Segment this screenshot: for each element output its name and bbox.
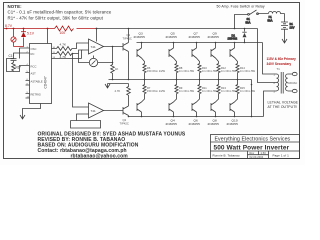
svg-text:741: 741 <box>91 45 97 49</box>
transistor Q2 TIP42C <box>120 98 130 126</box>
wire: IC supply from red rail <box>47 28 49 44</box>
diode D1 1N5402 <box>228 28 247 44</box>
transistor QL141 lower 2N3055 <box>137 96 145 118</box>
svg-text:5.1V: 5.1V <box>27 32 35 36</box>
red supply rail wire <box>4 28 98 30</box>
transistor Q9 upper 2N3055 <box>208 32 220 64</box>
upper collector rail <box>137 42 263 44</box>
wire: IC pin to op-amp U2B input <box>72 53 83 107</box>
credits text block <box>38 132 186 160</box>
svg-text:ASTABLE: ASTABLE <box>31 80 43 84</box>
svg-text:150 Ohm 1/2W: 150 Ohm 1/2W <box>147 69 166 73</box>
feedback loop with trimmer VR1 <box>79 50 113 67</box>
resistor R1* <box>12 63 22 72</box>
svg-text:340V Secondary: 340V Secondary <box>267 62 292 66</box>
resistor R16 (red, 100 ohm) <box>55 26 74 31</box>
svg-text:150 Ohm 1/2W: 150 Ohm 1/2W <box>147 89 166 93</box>
transformer T1 <box>273 67 293 94</box>
resistor R6 150 Ohm 1/2W <box>143 64 166 81</box>
svg-text:50 Amp. Fuse Switch or Relay: 50 Amp. Fuse Switch or Relay <box>217 4 265 8</box>
svg-text:C1* - 0.1 uF metallized-film c: C1* - 0.1 uF metallized-film capacitor, … <box>8 10 112 15</box>
svg-text:1K: 1K <box>115 67 119 71</box>
svg-text:02-03-2004: 02-03-2004 <box>250 155 264 159</box>
transistor Q6 lower 2N3055 <box>189 96 201 127</box>
fuse F1 50A <box>268 12 285 23</box>
svg-text:100: 100 <box>60 31 66 35</box>
resistor R12 0.1 Ohm 5W <box>217 64 237 81</box>
battery B1 12V <box>281 14 295 40</box>
svg-text:2N3055: 2N3055 <box>208 35 220 39</box>
svg-text:LETHAL VOLTAGE: LETHAL VOLTAGE <box>268 101 299 105</box>
svg-text:R1*: R1* <box>16 66 22 70</box>
output terminal bottom <box>292 89 297 92</box>
svg-text:NOTE:: NOTE: <box>8 4 23 9</box>
svg-text:T1: T1 <box>277 67 281 71</box>
svg-text:0.1 Ohm 5W: 0.1 Ohm 5W <box>202 89 218 93</box>
main positive rail (battery side) <box>98 28 258 30</box>
svg-text:0.1 Ohm 5W: 0.1 Ohm 5W <box>221 89 237 93</box>
svg-text:0.1 Ohm 5W: 0.1 Ohm 5W <box>240 89 256 93</box>
wire: op-amp U2A output to Q1 <box>104 46 124 48</box>
svg-text:0.1 Ohm 5W: 0.1 Ohm 5W <box>221 69 237 73</box>
capacitor C1* <box>9 54 17 63</box>
svg-text:2N3055: 2N3055 <box>208 122 220 126</box>
transistor Q5 upper 2N3055 <box>166 32 178 64</box>
chassis ground (battery negative) <box>282 39 287 43</box>
wire: op-amp supply from rail <box>96 28 98 30</box>
IC U1 CD4047 astable oscillator <box>23 44 61 113</box>
svg-text:RETRIG: RETRIG <box>31 93 41 97</box>
svg-text:741: 741 <box>91 109 97 113</box>
svg-text:0.1 Ohm 5W: 0.1 Ohm 5W <box>179 69 195 73</box>
wire: U2B output to Q2 <box>104 110 124 112</box>
resistor R11 0.1 Ohm 5W <box>198 80 218 96</box>
svg-text:rbtabanao@yahoo.com: rbtabanao@yahoo.com <box>71 154 129 160</box>
op-amp U2A <box>83 29 104 55</box>
svg-text:8.7V: 8.7V <box>5 24 13 28</box>
svg-text:50A: 50A <box>268 18 273 22</box>
switch S1 <box>234 10 269 29</box>
svg-text:RCC: RCC <box>31 65 37 69</box>
resistor R2 4.7K <box>57 43 83 51</box>
zener diode ZD1 (red) <box>21 28 35 40</box>
resistor R13 0.1 Ohm 5W <box>217 80 237 96</box>
transistor Q8 lower 2N3055 <box>208 96 220 127</box>
svg-text:230VAC: 230VAC <box>288 81 298 85</box>
output terminal top <box>292 72 297 75</box>
feedback loop U2B <box>71 114 101 128</box>
resistor R8 0.1 Ohm 5W <box>175 64 195 81</box>
wire: lower collector rail to primary bottom <box>264 91 273 117</box>
resistor R9 0.1 Ohm 5W <box>175 80 195 96</box>
ground (IC) <box>20 113 25 120</box>
resistor R5 <box>115 84 131 98</box>
svg-text:1N5402: 1N5402 <box>228 37 238 41</box>
svg-text:0.1 Ohm 5W: 0.1 Ohm 5W <box>240 69 256 73</box>
op-amp U2B <box>83 103 104 118</box>
svg-text:4.7K: 4.7K <box>115 89 121 93</box>
svg-text:D1: D1 <box>232 33 236 37</box>
LED1 indicator (red) <box>11 28 24 47</box>
title block <box>211 135 300 159</box>
resistor R7 150 Ohm 1/2W <box>143 80 166 96</box>
svg-text:2N3055: 2N3055 <box>166 122 178 126</box>
svg-text:500 Watt Power Inverter: 500 Watt Power Inverter <box>214 144 290 151</box>
wire: positive rail to transformer centre tap <box>258 29 273 83</box>
wires: timing network to IC pins <box>7 48 26 72</box>
transistor Q1 TIP41C <box>123 28 132 81</box>
svg-text:R1* - 47K for 50Hz output, 39K: R1* - 47K for 50Hz output, 39K for 60Hz … <box>8 16 104 21</box>
svg-text:2N3055: 2N3055 <box>189 122 201 126</box>
svg-text:2N3055: 2N3055 <box>189 35 201 39</box>
warning box: LETHAL VOLTAGE <box>268 101 299 110</box>
resistor R15 0.1 Ohm 5W <box>236 80 256 96</box>
svg-text:115V & 60z Primary: 115V & 60z Primary <box>267 57 296 61</box>
svg-text:0.1 Ohm 5W: 0.1 Ohm 5W <box>202 69 218 73</box>
svg-text:Page 1 of 1: Page 1 of 1 <box>273 153 290 157</box>
resistor R10 0.1 Ohm 5W <box>198 64 218 81</box>
wire: emitter rail drop <box>251 80 253 118</box>
svg-text:1.50: 1.50 <box>261 151 267 155</box>
svg-text:12V: 12V <box>290 25 295 29</box>
svg-text:AST: AST <box>31 72 37 76</box>
svg-text:RC: RC <box>31 52 35 56</box>
transistor Q3 upper 2N3055 <box>134 32 146 64</box>
svg-text:50A: 50A <box>246 20 251 24</box>
resistor R3 4.7K <box>57 52 79 60</box>
resistor R4 <box>111 47 119 81</box>
svg-text:TIP42C: TIP42C <box>120 122 129 126</box>
transistor Q7 upper 2N3055 <box>189 32 201 64</box>
note text block <box>8 4 112 21</box>
wire: IC out to op-amp minus input <box>61 50 83 59</box>
wire: upper collector rail to primary top <box>263 43 273 75</box>
svg-text:2N3055: 2N3055 <box>227 122 239 126</box>
svg-text:Ronnie B. Tabanao: Ronnie B. Tabanao <box>213 153 240 157</box>
emitter common rail <box>109 79 252 81</box>
lower collector rail <box>129 116 264 118</box>
svg-text:2N3055: 2N3055 <box>134 35 146 39</box>
svg-text:OSC: OSC <box>31 47 37 51</box>
svg-text:AT THE OUTPUT!!: AT THE OUTPUT!! <box>268 105 298 109</box>
sheet border frame <box>4 3 300 159</box>
svg-text:0.1 Ohm 5W: 0.1 Ohm 5W <box>179 89 195 93</box>
svg-text:Q2: Q2 <box>123 118 127 122</box>
svg-text:4.7K: 4.7K <box>60 43 67 47</box>
resistor R14 0.1 Ohm 5W <box>236 64 256 81</box>
svg-text:2N3055: 2N3055 <box>166 35 178 39</box>
transistor QU234 upper 2N3055 <box>230 42 238 64</box>
transistor Q10 lower 2N3055 <box>227 96 239 127</box>
svg-text:CD4047: CD4047 <box>44 76 48 88</box>
ground (driver bias) <box>105 84 129 89</box>
svg-text:TIP41C: TIP41C <box>123 36 132 40</box>
transistor Q4 lower 2N3055 <box>166 96 178 127</box>
svg-text:Everything Electronics Service: Everything Electronics Services <box>215 137 291 143</box>
svg-text:Rev: Rev <box>250 151 255 155</box>
